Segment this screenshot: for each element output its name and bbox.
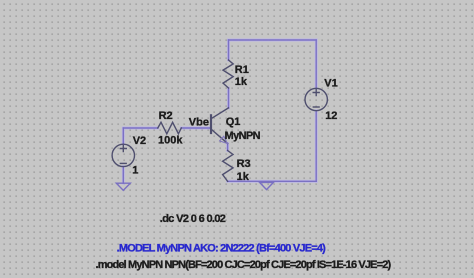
svg-text:.dc V2 0 6 0.02: .dc V2 0 6 0.02 bbox=[160, 213, 226, 225]
wire: top horizontal R1 to V1 bbox=[123, 40, 316, 183]
Q1 base bar bbox=[210, 115, 212, 133]
svg-text:V2: V2 bbox=[133, 135, 146, 147]
resistor R1 zigzag bbox=[223, 60, 233, 88]
V2 minus bbox=[120, 162, 126, 164]
svg-text:MyNPN: MyNPN bbox=[225, 130, 261, 142]
ground below V2 bbox=[116, 183, 130, 190]
wire: V1 top lead bbox=[315, 40, 317, 88]
svg-text:1k: 1k bbox=[237, 171, 250, 183]
voltage source V1 bbox=[305, 88, 327, 110]
svg-text:100k: 100k bbox=[158, 135, 183, 147]
svg-text:1: 1 bbox=[132, 165, 138, 177]
V2 plus bbox=[120, 146, 126, 152]
svg-text:Vbe: Vbe bbox=[189, 116, 209, 128]
svg-text:R1: R1 bbox=[235, 64, 249, 76]
Q1 emitter line bbox=[212, 130, 228, 144]
svg-text:.MODEL MyNPN AKO: 2N2222 (Bf=4: .MODEL MyNPN AKO: 2N2222 (Bf=400 VJE=4) bbox=[117, 243, 327, 255]
svg-text:V1: V1 bbox=[324, 77, 337, 89]
wire: V2 bottom lead bbox=[122, 167, 124, 184]
Q1 emitter arrowhead bbox=[220, 136, 228, 143]
svg-text:12: 12 bbox=[325, 110, 337, 122]
resistor R2 zigzag bbox=[158, 122, 182, 134]
voltage source V2 bbox=[112, 144, 134, 166]
svg-text:.model MyNPN NPN(BF=200 CJC=20: .model MyNPN NPN(BF=200 CJC=20pf CJE=20p… bbox=[96, 259, 392, 271]
svg-text:1k: 1k bbox=[235, 76, 248, 88]
wire: V2 corner to R2 bbox=[123, 127, 158, 129]
Q1 collector line bbox=[212, 108, 229, 118]
ground on bottom wire bbox=[260, 182, 274, 189]
V1 minus bbox=[313, 106, 319, 108]
V1 plus bbox=[313, 90, 319, 96]
wire: V1 bottom lead bbox=[315, 111, 317, 182]
transistor Q1 bbox=[211, 108, 229, 144]
wire: R1 bottom to collector bbox=[228, 88, 230, 108]
resistor R3 zigzag bbox=[223, 151, 233, 182]
wire halos bbox=[123, 40, 316, 183]
svg-text:Q1: Q1 bbox=[226, 116, 241, 128]
wire: emitter to R3 bbox=[227, 144, 229, 151]
svg-text:R2: R2 bbox=[159, 110, 173, 122]
svg-text:R3: R3 bbox=[237, 158, 251, 170]
wire: base wire R2 to Q1 bbox=[181, 127, 210, 129]
wire: V2 top lead bbox=[122, 128, 124, 144]
wire: R1 top lead bbox=[228, 40, 230, 60]
wire: bottom R3 to V1 bbox=[228, 180, 317, 182]
